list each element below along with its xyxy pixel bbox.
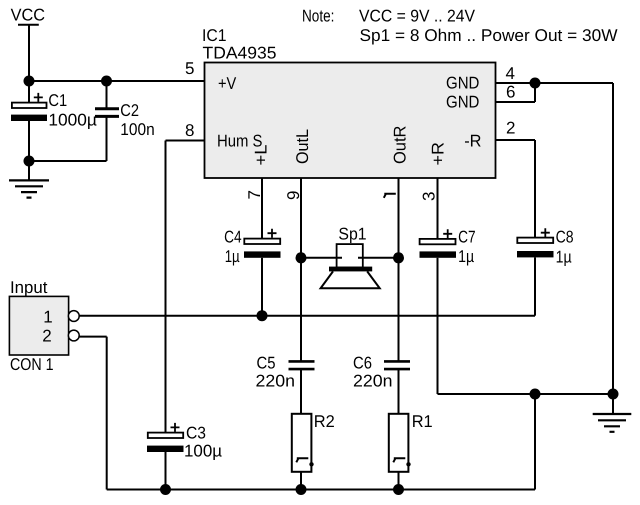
wire pin 4 GND to right rail bbox=[496, 83, 614, 394]
capacitor C7 bbox=[420, 228, 614, 395]
svg-text:2: 2 bbox=[506, 119, 515, 138]
ground (right) bbox=[593, 414, 632, 432]
ground (left, below C1) bbox=[9, 180, 49, 197]
svg-text:1µ: 1µ bbox=[225, 247, 240, 266]
svg-text:+V: +V bbox=[218, 74, 237, 93]
node speaker left junction bbox=[296, 252, 307, 263]
node R1 bottom rail junction bbox=[393, 484, 404, 495]
svg-text:CON 1: CON 1 bbox=[10, 355, 54, 374]
svg-text:Input: Input bbox=[10, 278, 48, 297]
svg-text:C5: C5 bbox=[257, 354, 276, 373]
wire drop to bottom rail bbox=[534, 394, 536, 490]
svg-text:R1: R1 bbox=[412, 412, 433, 431]
svg-text:+L: +L bbox=[252, 145, 271, 166]
svg-text:220n: 220n bbox=[353, 372, 393, 391]
node C1/C2/ground junction bbox=[24, 156, 35, 167]
svg-text:100n: 100n bbox=[120, 120, 154, 139]
svg-text:Sp1 = 8 Ohm .. Power Out = 30W: Sp1 = 8 Ohm .. Power Out = 30W bbox=[360, 26, 618, 45]
wire pin 8 to C3 chain bbox=[166, 141, 205, 433]
svg-text:2: 2 bbox=[42, 326, 51, 345]
wire C1 to C2 bottom bbox=[29, 118, 107, 162]
svg-text:VCC: VCC bbox=[11, 5, 45, 24]
pin 1 label bbox=[384, 194, 396, 198]
svg-text:3: 3 bbox=[420, 192, 439, 201]
node VCC junction C1 bbox=[24, 76, 35, 87]
node right rail / ground junction bbox=[608, 389, 619, 400]
wire input pin 1 to C4/C8 bbox=[79, 315, 535, 317]
node C7-rail / C5-drop junction bbox=[530, 389, 541, 400]
svg-text:C4: C4 bbox=[224, 228, 242, 247]
svg-text:R2: R2 bbox=[314, 412, 335, 431]
wire top rail VCC to pin 5 bbox=[29, 80, 205, 82]
svg-text:1µ: 1µ bbox=[458, 247, 474, 266]
wire pin 7 stub bbox=[261, 178, 263, 239]
wire pin 3 stub bbox=[437, 178, 439, 239]
capacitor C2 bbox=[95, 81, 155, 139]
svg-text:-R: -R bbox=[464, 132, 481, 151]
capacitor C3 bbox=[147, 423, 222, 490]
svg-text:C7: C7 bbox=[458, 228, 476, 247]
pin 1 circle bbox=[68, 311, 79, 322]
wire pin 2 -R to C8 bbox=[496, 140, 536, 237]
svg-text:220n: 220n bbox=[256, 372, 296, 391]
svg-text:4: 4 bbox=[506, 64, 515, 83]
input connector CON1 bbox=[9, 278, 79, 374]
capacitor C5 bbox=[256, 354, 315, 415]
svg-text:1000µ: 1000µ bbox=[48, 110, 97, 129]
svg-text:IC1: IC1 bbox=[202, 26, 227, 45]
svg-text:C8: C8 bbox=[556, 227, 574, 246]
svg-text:VCC = 9V .. 24V: VCC = 9V .. 24V bbox=[359, 7, 476, 26]
capacitor C6 bbox=[353, 354, 410, 415]
capacitor C4 bbox=[224, 228, 280, 316]
capacitor C1 bbox=[11, 81, 97, 181]
IC1 TDA4935 body bbox=[202, 26, 496, 178]
svg-text:Note:: Note: bbox=[302, 7, 334, 26]
node C3 bottom rail junction bbox=[160, 484, 171, 495]
speaker Sp1 bbox=[301, 225, 399, 289]
svg-text:TDA4935: TDA4935 bbox=[203, 44, 277, 63]
wire right ground stub bbox=[612, 394, 614, 414]
node C4 / input wire junction bbox=[257, 310, 268, 321]
node pin4/pin6 junction bbox=[530, 78, 541, 89]
svg-text:OutR: OutR bbox=[391, 126, 410, 164]
node speaker right junction bbox=[393, 252, 404, 263]
svg-text:GND: GND bbox=[446, 73, 479, 92]
svg-text:OutL: OutL bbox=[293, 129, 312, 164]
svg-text:C2: C2 bbox=[120, 101, 139, 120]
svg-text:C6: C6 bbox=[353, 354, 372, 373]
svg-text:8: 8 bbox=[185, 121, 194, 140]
svg-text:+R: +R bbox=[429, 142, 448, 166]
svg-text:1: 1 bbox=[43, 308, 52, 327]
wire pin 9 OutL down bbox=[300, 178, 302, 362]
svg-text:C1: C1 bbox=[48, 91, 67, 110]
wire pin 1 OutR down bbox=[398, 178, 400, 362]
svg-text:C3: C3 bbox=[186, 423, 206, 442]
svg-text:100µ: 100µ bbox=[184, 441, 222, 460]
VCC supply symbol bbox=[11, 5, 45, 81]
wire bottom rail bbox=[107, 489, 535, 491]
capacitor C8 bbox=[517, 227, 574, 315]
wire input pin 2 down to bottom rail bbox=[79, 337, 107, 490]
resistor R2 bbox=[292, 412, 335, 490]
svg-text:6: 6 bbox=[506, 83, 515, 102]
resistor R1 bbox=[389, 412, 433, 490]
svg-text:GND: GND bbox=[446, 93, 479, 112]
svg-text:5: 5 bbox=[185, 59, 194, 78]
wire pin 6 GND bbox=[496, 83, 536, 102]
node R2 bottom rail junction bbox=[296, 484, 307, 495]
svg-text:1µ: 1µ bbox=[556, 248, 572, 267]
node VCC junction C2 bbox=[101, 76, 112, 87]
svg-text:Sp1: Sp1 bbox=[338, 225, 366, 244]
note text bbox=[302, 7, 618, 46]
pin 2 circle bbox=[68, 330, 79, 341]
